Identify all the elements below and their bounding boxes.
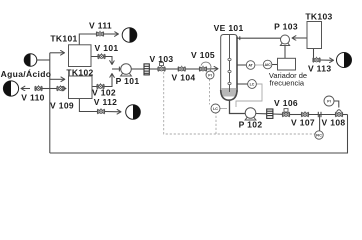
svg-text:PI: PI: [327, 99, 330, 103]
svg-text:PI: PI: [208, 73, 211, 77]
svg-text:V 109: V 109: [50, 100, 74, 110]
svg-text:P 103: P 103: [274, 22, 298, 32]
svg-text:VE 101: VE 101: [214, 23, 244, 33]
svg-text:TK102: TK102: [66, 68, 93, 78]
svg-text:V 111: V 111: [89, 21, 112, 31]
svg-text:V 105: V 105: [191, 50, 215, 60]
svg-text:V 106: V 106: [274, 98, 298, 108]
svg-text:V 101: V 101: [95, 43, 119, 53]
svg-text:P 101: P 101: [116, 76, 140, 86]
svg-text:V 103: V 103: [150, 54, 174, 64]
svg-text:V 107: V 107: [291, 118, 315, 128]
svg-text:TK103: TK103: [305, 11, 332, 21]
svg-text:FIC: FIC: [316, 133, 322, 137]
svg-text:TK101: TK101: [50, 34, 77, 44]
svg-text:V 112: V 112: [94, 97, 118, 107]
svg-text:Agua/Ácido: Agua/Ácido: [1, 69, 52, 79]
svg-text:V 104: V 104: [172, 72, 196, 82]
svg-text:LC: LC: [250, 82, 255, 86]
svg-text:V 110: V 110: [21, 93, 45, 103]
svg-text:frecuencia: frecuencia: [269, 79, 304, 88]
svg-text:P 102: P 102: [239, 120, 263, 130]
svg-text:AT: AT: [248, 63, 253, 67]
svg-text:AIC: AIC: [264, 63, 271, 67]
svg-text:V 113: V 113: [308, 64, 332, 74]
svg-text:LC: LC: [213, 107, 218, 111]
svg-text:V 108: V 108: [322, 118, 346, 128]
